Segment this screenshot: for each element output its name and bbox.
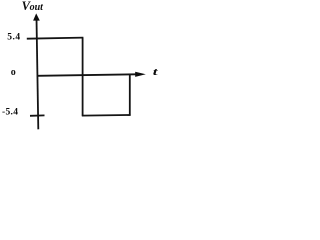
waveform falling edge: [82, 38, 84, 116]
waveform low segment: [82, 114, 131, 117]
y-axis: [37, 19, 39, 130]
svg-text:o: o: [11, 67, 16, 78]
-5.4 tick: [30, 114, 45, 116]
y-axis arrowhead: [33, 13, 40, 20]
svg-text:out: out: [30, 2, 45, 13]
t-axis arrowhead: [135, 72, 146, 77]
5.4 tick and waveform high segment: [27, 38, 84, 39]
svg-text:-5.4: -5.4: [2, 108, 18, 118]
t-axis: [37, 74, 135, 76]
svg-text:5.4: 5.4: [7, 33, 20, 43]
waveform rising edge: [129, 75, 131, 116]
